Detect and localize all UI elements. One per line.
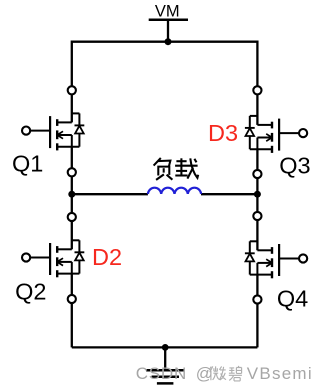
svg-text:D3: D3 xyxy=(208,120,238,146)
junction dot VM xyxy=(165,38,172,45)
node terminal circle right Q3-source xyxy=(253,170,261,178)
wire node to mid rail left xyxy=(71,176,73,194)
node terminal circle right bottom xyxy=(253,295,261,303)
载 char xyxy=(176,160,186,162)
node terminal circle left Q1-source xyxy=(68,168,76,176)
transistor Q2 xyxy=(22,240,84,277)
junction dot ground xyxy=(162,344,169,351)
wire drain Q1 xyxy=(71,95,73,123)
bottom rail wire xyxy=(72,346,258,348)
svg-text:Q3: Q3 xyxy=(279,152,310,178)
mid rail left wire xyxy=(72,193,148,195)
node terminal circle left Q2-drain xyxy=(68,213,76,221)
ground symbol xyxy=(146,370,184,383)
VM supply bar xyxy=(149,18,188,21)
svg-text:D2: D2 xyxy=(92,244,122,270)
watermark 微 glyph xyxy=(209,366,226,380)
transistor Q1 xyxy=(22,113,84,150)
svg-text:VM: VM xyxy=(155,3,180,21)
wire source Q1 to node xyxy=(71,147,73,169)
wire Q2 drain xyxy=(71,221,73,249)
svg-text:CSDN: CSDN xyxy=(136,364,187,383)
node terminal circle right top xyxy=(253,86,261,94)
wire Q4 drain xyxy=(256,220,258,250)
wire Q3 drain xyxy=(256,95,258,125)
wire Q2 source xyxy=(71,274,73,295)
ground stem wire xyxy=(164,347,166,370)
wire Q4 node to bottom rail xyxy=(256,304,258,348)
VM stem wire xyxy=(167,20,169,42)
wire mid rail to Q2 top node xyxy=(71,194,73,213)
node terminal circle left bottom xyxy=(68,295,76,303)
wire Q3 node to mid rail xyxy=(256,178,258,194)
inductor load coil xyxy=(148,188,201,194)
top rail wire xyxy=(72,42,258,86)
node terminal circle left top xyxy=(68,86,76,94)
junction dot mid left xyxy=(68,191,75,198)
wire Q4 source xyxy=(256,275,258,296)
mid rail right wire xyxy=(201,193,257,195)
负 char xyxy=(154,158,161,166)
svg-text:Q2: Q2 xyxy=(15,279,46,305)
node terminal circle right Q4-drain xyxy=(253,212,261,220)
junction dot mid right xyxy=(254,191,261,198)
svg-text:Q1: Q1 xyxy=(12,150,43,176)
svg-text:VBsemi: VBsemi xyxy=(247,364,313,383)
svg-text:Q4: Q4 xyxy=(277,285,308,311)
wire Q3 source xyxy=(256,149,258,170)
watermark 碧 glyph xyxy=(229,366,242,381)
wire Q2 node to bottom rail xyxy=(71,303,73,347)
transistor Q4 xyxy=(245,241,307,278)
label 负载 (load) hand-drawn glyphs xyxy=(154,158,199,180)
wire mid rail to Q4 node xyxy=(256,194,258,212)
transistor Q3 xyxy=(245,116,307,153)
